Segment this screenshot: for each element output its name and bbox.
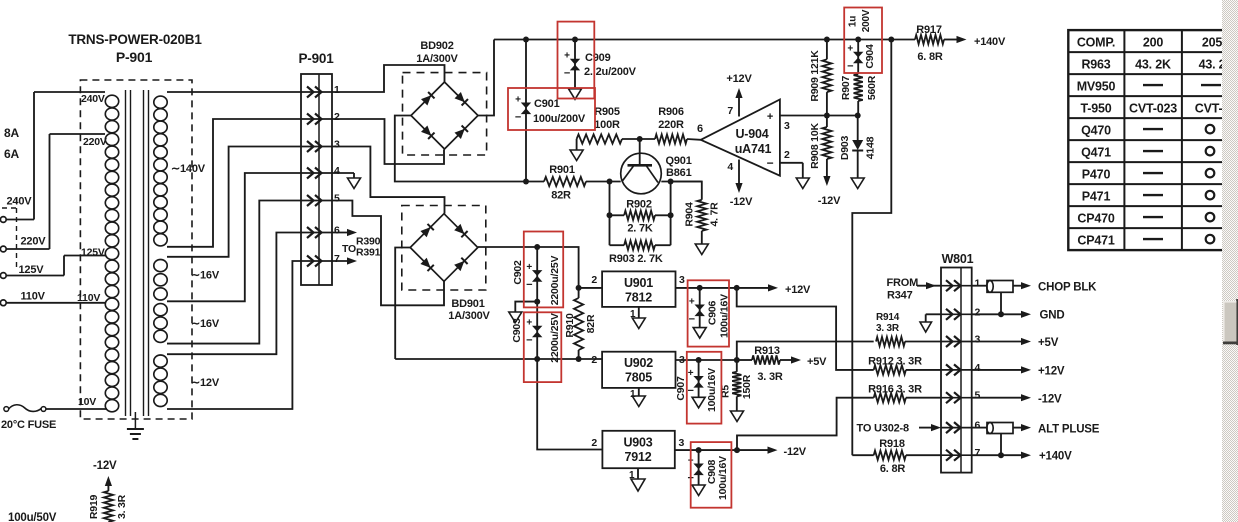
svg-text:220R: 220R — [658, 119, 684, 131]
svg-text:3: 3 — [679, 437, 685, 449]
svg-text:R908 10K: R908 10K — [809, 123, 821, 169]
svg-text:1: 1 — [630, 389, 636, 400]
svg-text:R907: R907 — [840, 75, 852, 100]
svg-text:BD901: BD901 — [451, 298, 484, 310]
svg-text:43. 2K: 43. 2K — [1135, 57, 1171, 71]
svg-text:−: − — [767, 156, 774, 170]
svg-text:3: 3 — [334, 139, 340, 151]
svg-text:P-901: P-901 — [116, 49, 153, 65]
svg-text:4. 7R: 4. 7R — [709, 202, 721, 227]
svg-text:200V: 200V — [861, 9, 872, 32]
svg-text:R904: R904 — [684, 202, 696, 227]
svg-text:C903: C903 — [511, 318, 523, 343]
svg-text:1: 1 — [629, 470, 635, 481]
svg-text:R963: R963 — [1081, 57, 1110, 71]
svg-text:CP471: CP471 — [1077, 233, 1114, 247]
svg-text:+5V: +5V — [807, 356, 827, 368]
svg-text:1: 1 — [975, 278, 981, 290]
svg-text:220V: 220V — [83, 136, 107, 148]
svg-text:+: + — [688, 368, 694, 379]
svg-text:U903: U903 — [623, 436, 652, 450]
svg-text:T-950: T-950 — [1081, 101, 1112, 115]
svg-text:B861: B861 — [666, 167, 692, 179]
svg-text:100u/200V: 100u/200V — [533, 113, 586, 125]
svg-text:125V: 125V — [19, 264, 45, 276]
svg-text:U901: U901 — [624, 276, 653, 290]
svg-text:82R: 82R — [585, 314, 597, 333]
svg-text:U-904: U-904 — [735, 127, 768, 141]
svg-text:100u/50V: 100u/50V — [8, 512, 57, 522]
svg-text:5: 5 — [334, 193, 340, 205]
svg-text:−: − — [526, 279, 532, 291]
svg-text:Q470: Q470 — [1081, 123, 1111, 137]
svg-text:-12V: -12V — [1038, 394, 1062, 406]
svg-text:100u/16V: 100u/16V — [706, 368, 718, 412]
svg-text:2: 2 — [975, 306, 981, 318]
svg-text:Q471: Q471 — [1081, 145, 1111, 159]
svg-text:COMP.: COMP. — [1077, 35, 1115, 49]
svg-text:∼12V: ∼12V — [191, 377, 220, 389]
svg-text:R903 2. 7K: R903 2. 7K — [609, 253, 663, 265]
svg-text:7: 7 — [334, 253, 340, 265]
svg-text:2: 2 — [591, 354, 597, 366]
svg-text:W801: W801 — [942, 252, 974, 266]
svg-text:C907: C907 — [675, 376, 687, 401]
svg-text:CP470: CP470 — [1077, 211, 1114, 225]
svg-text:7: 7 — [727, 105, 733, 117]
svg-text:U902: U902 — [624, 356, 653, 370]
svg-text:−: − — [847, 61, 853, 73]
svg-text:3: 3 — [784, 120, 790, 132]
svg-text:110V: 110V — [21, 291, 46, 303]
svg-text:Q901: Q901 — [666, 155, 692, 167]
svg-text:2: 2 — [591, 274, 597, 286]
svg-text:R905: R905 — [594, 106, 620, 118]
svg-text:2. 7K: 2. 7K — [627, 223, 653, 235]
svg-text:−: − — [687, 385, 693, 397]
svg-text:205: 205 — [1202, 35, 1223, 49]
svg-text:+: + — [847, 44, 853, 55]
svg-text:D903: D903 — [839, 135, 851, 160]
svg-text:C906: C906 — [707, 300, 719, 325]
svg-text:7: 7 — [975, 447, 981, 459]
svg-text:∼16V: ∼16V — [191, 318, 220, 330]
svg-text:6A: 6A — [4, 147, 19, 161]
svg-text:GND: GND — [1040, 310, 1065, 322]
svg-text:+: + — [526, 262, 532, 273]
svg-text:−: − — [689, 313, 695, 325]
svg-text:uA741: uA741 — [735, 142, 772, 156]
svg-text:7812: 7812 — [625, 291, 652, 305]
svg-text:P471: P471 — [1082, 189, 1111, 203]
svg-text:2200u/25V: 2200u/25V — [549, 256, 561, 306]
svg-text:1A/300V: 1A/300V — [448, 310, 490, 322]
svg-text:CHOP BLK: CHOP BLK — [1038, 282, 1097, 294]
svg-text:2. 2u/200V: 2. 2u/200V — [584, 66, 637, 78]
svg-text:P-901: P-901 — [298, 51, 334, 66]
svg-text:R913: R913 — [754, 345, 780, 357]
svg-text:R914: R914 — [876, 312, 900, 323]
svg-text:TO: TO — [342, 243, 356, 255]
svg-text:-12V: -12V — [818, 195, 841, 207]
svg-text:2: 2 — [591, 437, 597, 449]
svg-text:3: 3 — [975, 334, 981, 346]
svg-text:−: − — [564, 68, 570, 80]
svg-text:+12V: +12V — [1038, 366, 1065, 378]
svg-text:43. 2: 43. 2 — [1199, 57, 1226, 71]
svg-text:TO U302-8: TO U302-8 — [857, 423, 909, 435]
svg-text:−: − — [526, 335, 532, 347]
svg-text:7805: 7805 — [625, 371, 652, 385]
svg-text:100u/16V: 100u/16V — [717, 456, 729, 500]
svg-text:240V: 240V — [81, 93, 105, 105]
svg-text:1: 1 — [630, 309, 636, 320]
svg-text:1A/300V: 1A/300V — [416, 53, 458, 65]
svg-text:3: 3 — [679, 274, 685, 286]
svg-text:R918: R918 — [879, 438, 905, 450]
svg-text:-12V: -12V — [730, 196, 753, 208]
svg-text:5: 5 — [975, 390, 981, 402]
svg-text:R910: R910 — [564, 313, 576, 338]
svg-text:110V: 110V — [77, 292, 100, 304]
svg-text:R909 121K: R909 121K — [809, 50, 821, 102]
svg-text:+140V: +140V — [974, 36, 1006, 48]
svg-text:CVT-023: CVT-023 — [1129, 101, 1177, 115]
svg-text:∼140V: ∼140V — [171, 163, 206, 175]
svg-text:P470: P470 — [1082, 167, 1111, 181]
svg-text:3. 3R: 3. 3R — [757, 371, 783, 383]
svg-text:+: + — [515, 94, 521, 105]
svg-text:2: 2 — [334, 111, 340, 123]
svg-text:R919: R919 — [88, 494, 100, 519]
svg-text:7912: 7912 — [624, 450, 651, 464]
svg-text:20°C FUSE: 20°C FUSE — [1, 419, 56, 431]
svg-text:125V: 125V — [81, 247, 105, 259]
svg-text:C901: C901 — [534, 98, 560, 110]
svg-text:R916 3. 3R: R916 3. 3R — [868, 384, 922, 396]
svg-text:C902: C902 — [512, 260, 524, 285]
svg-text:R906: R906 — [658, 106, 684, 118]
svg-text:∼16V: ∼16V — [191, 270, 220, 282]
svg-text:6: 6 — [334, 225, 340, 237]
svg-text:+12V: +12V — [726, 73, 752, 85]
svg-text:BD902: BD902 — [420, 40, 453, 52]
svg-text:560R: 560R — [866, 75, 878, 100]
svg-text:100R: 100R — [594, 119, 620, 131]
svg-text:+: + — [564, 51, 570, 62]
svg-text:4148: 4148 — [865, 136, 877, 159]
svg-text:TRNS-POWER-020B1: TRNS-POWER-020B1 — [68, 32, 202, 47]
svg-text:6. 8R: 6. 8R — [917, 51, 943, 63]
svg-text:200: 200 — [1143, 35, 1164, 49]
svg-text:3. 3R: 3. 3R — [876, 323, 900, 334]
svg-text:R912 3. 3R: R912 3. 3R — [868, 356, 922, 368]
svg-text:4: 4 — [727, 161, 733, 173]
svg-text:+12V: +12V — [785, 284, 811, 296]
svg-text:150R: 150R — [741, 374, 753, 399]
svg-text:+: + — [526, 318, 532, 329]
svg-text:82R: 82R — [551, 190, 571, 202]
svg-text:3. 3R: 3. 3R — [116, 494, 128, 519]
svg-text:1u: 1u — [848, 16, 859, 27]
svg-text:ALT PLUSE: ALT PLUSE — [1038, 424, 1100, 436]
svg-text:R347: R347 — [887, 290, 913, 302]
svg-text:+140V: +140V — [1039, 451, 1072, 463]
svg-text:-12V: -12V — [93, 460, 117, 472]
svg-text:FROM: FROM — [887, 277, 919, 289]
svg-text:R391: R391 — [356, 247, 381, 259]
svg-text:4: 4 — [975, 362, 981, 374]
svg-text:10V: 10V — [78, 396, 96, 408]
svg-text:+5V: +5V — [1038, 337, 1059, 349]
svg-text:R902: R902 — [626, 199, 652, 211]
svg-text:C904: C904 — [864, 44, 876, 69]
svg-text:2200u/25V: 2200u/25V — [549, 313, 561, 363]
svg-text:C909: C909 — [585, 52, 611, 64]
svg-text:+: + — [689, 296, 695, 307]
svg-text:2: 2 — [784, 149, 790, 161]
svg-text:240V: 240V — [7, 196, 33, 208]
svg-text:-12V: -12V — [784, 446, 807, 458]
svg-text:1: 1 — [334, 84, 340, 96]
svg-text:R917: R917 — [916, 24, 942, 36]
svg-text:MV950: MV950 — [1077, 79, 1116, 93]
svg-text:+: + — [767, 111, 773, 123]
svg-text:6: 6 — [697, 123, 703, 135]
svg-text:220V: 220V — [21, 236, 47, 248]
svg-text:6. 8R: 6. 8R — [880, 463, 906, 475]
svg-text:6: 6 — [975, 420, 981, 432]
svg-text:R901: R901 — [549, 164, 575, 176]
svg-text:4: 4 — [334, 165, 340, 177]
svg-text:8A: 8A — [4, 126, 19, 140]
svg-text:−: − — [515, 111, 521, 123]
